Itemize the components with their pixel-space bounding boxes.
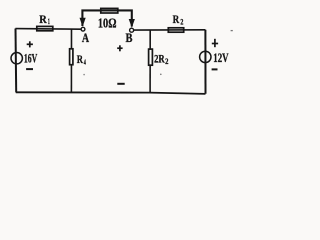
node B xyxy=(130,28,134,32)
svg-text:2R: 2R xyxy=(154,51,165,65)
svg-text:A: A xyxy=(82,31,89,45)
wire left vertical xyxy=(15,29,18,93)
svg-text:2: 2 xyxy=(180,18,183,27)
wire 2R2 branch xyxy=(149,30,151,92)
resistor 2R2 xyxy=(149,49,169,66)
svg-text:R: R xyxy=(39,12,47,26)
resistor R1 xyxy=(37,12,53,31)
resistor R2 top right xyxy=(168,12,183,32)
svg-text:4: 4 xyxy=(84,57,86,66)
resistor 10ohm xyxy=(98,8,118,30)
label plus 16V xyxy=(27,41,33,47)
speck dot xyxy=(160,74,162,76)
wire top-right segment xyxy=(134,29,206,31)
node A xyxy=(81,27,85,31)
wire bottom xyxy=(16,92,206,94)
speck dot2 xyxy=(83,74,85,76)
wire 10ohm branch xyxy=(82,10,131,26)
wire R4 branch xyxy=(70,29,72,92)
svg-text:12V: 12V xyxy=(213,51,228,65)
svg-text:2: 2 xyxy=(165,57,168,66)
speck dash xyxy=(231,30,233,32)
svg-text:R: R xyxy=(77,54,84,66)
svg-text:10Ω: 10Ω xyxy=(98,16,117,31)
svg-text:16V: 16V xyxy=(24,51,37,65)
arrow at A xyxy=(80,18,86,27)
resistor R4 xyxy=(70,49,86,67)
label plus 12V xyxy=(212,39,218,47)
label minus 16V xyxy=(26,68,33,70)
label plus middle xyxy=(117,45,122,51)
label minus 12V xyxy=(212,68,218,70)
svg-text:1: 1 xyxy=(48,17,50,26)
wire top-left segment xyxy=(15,28,81,31)
source 16V xyxy=(11,53,22,64)
arrow at B xyxy=(129,19,135,28)
source 12V xyxy=(200,51,211,62)
label minus middle xyxy=(117,83,124,85)
svg-text:R: R xyxy=(173,12,180,26)
svg-text:B: B xyxy=(126,31,133,45)
wire right vertical xyxy=(204,30,206,94)
